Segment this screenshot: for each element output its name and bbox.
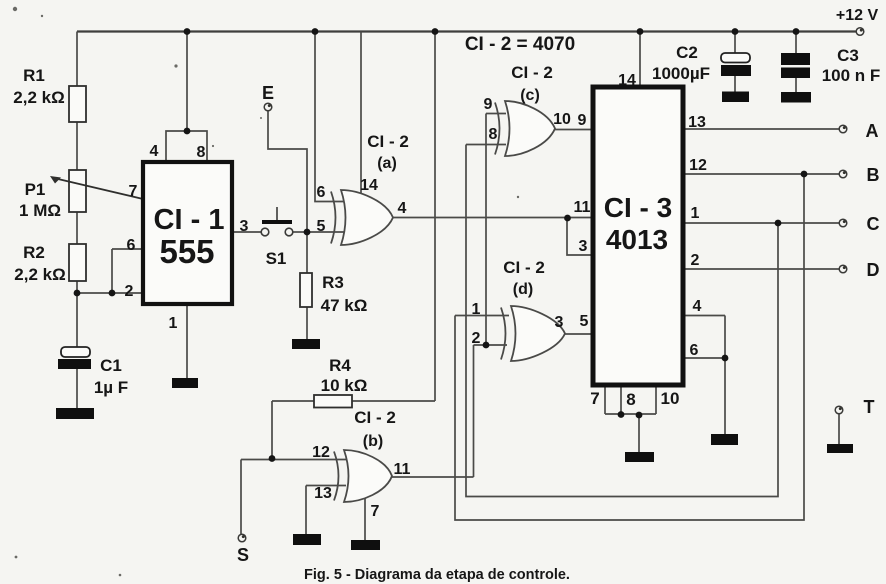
- svg-text:8: 8: [489, 126, 498, 143]
- svg-text:4013: 4013: [606, 224, 668, 255]
- svg-text:12: 12: [689, 157, 707, 174]
- svg-text:(c): (c): [520, 87, 540, 104]
- svg-text:14: 14: [360, 177, 378, 194]
- svg-text:R4: R4: [329, 356, 351, 375]
- svg-text:9: 9: [484, 96, 493, 113]
- svg-text:555: 555: [159, 233, 214, 270]
- svg-text:6: 6: [127, 237, 136, 254]
- svg-text:7: 7: [590, 389, 599, 408]
- svg-text:2: 2: [691, 252, 700, 269]
- svg-text:13: 13: [314, 485, 332, 502]
- svg-text:A: A: [866, 121, 879, 141]
- svg-text:CI - 2: CI - 2: [354, 408, 396, 427]
- svg-text:8: 8: [626, 390, 635, 409]
- svg-text:C1: C1: [100, 356, 122, 375]
- svg-text:CI - 2: CI - 2: [503, 258, 545, 277]
- svg-text:1: 1: [472, 301, 481, 318]
- svg-text:4: 4: [693, 298, 702, 315]
- svg-text:+12 V: +12 V: [836, 7, 879, 24]
- svg-text:C: C: [867, 214, 880, 234]
- svg-text:CI - 2: CI - 2: [367, 132, 409, 151]
- svg-text:5: 5: [580, 313, 589, 330]
- svg-text:1: 1: [691, 205, 700, 222]
- svg-text:100 n F: 100 n F: [822, 66, 881, 85]
- svg-text:7: 7: [371, 503, 380, 520]
- svg-text:C3: C3: [837, 46, 859, 65]
- svg-text:2,2 kΩ: 2,2 kΩ: [13, 88, 64, 107]
- svg-text:13: 13: [688, 114, 706, 131]
- svg-text:R1: R1: [23, 66, 45, 85]
- svg-text:2,2 kΩ: 2,2 kΩ: [14, 265, 65, 284]
- svg-text:11: 11: [574, 199, 591, 216]
- svg-text:Fig. 5 - Diagrama da etapa de: Fig. 5 - Diagrama da etapa de controle.: [304, 567, 570, 583]
- svg-text:11: 11: [394, 461, 411, 478]
- svg-text:3: 3: [555, 314, 564, 331]
- svg-text:14: 14: [618, 72, 636, 89]
- svg-text:D: D: [867, 260, 880, 280]
- svg-text:1 MΩ: 1 MΩ: [19, 201, 61, 220]
- svg-text:5: 5: [317, 218, 326, 235]
- svg-text:4: 4: [150, 143, 159, 160]
- svg-text:B: B: [867, 165, 880, 185]
- svg-text:3: 3: [579, 238, 588, 255]
- svg-text:CI - 1: CI - 1: [154, 204, 225, 236]
- svg-text:6: 6: [690, 342, 699, 359]
- svg-text:P1: P1: [25, 180, 46, 199]
- svg-text:12: 12: [312, 444, 330, 461]
- svg-text:10: 10: [553, 111, 571, 128]
- svg-text:S: S: [237, 545, 249, 565]
- svg-text:8: 8: [197, 144, 206, 161]
- svg-text:1: 1: [169, 315, 178, 332]
- svg-text:(a): (a): [377, 155, 397, 172]
- svg-text:(b): (b): [363, 433, 383, 450]
- svg-text:R3: R3: [322, 273, 344, 292]
- svg-text:CI - 2 = 4070: CI - 2 = 4070: [465, 34, 575, 55]
- svg-text:CI - 3: CI - 3: [604, 192, 672, 223]
- svg-text:2: 2: [472, 330, 481, 347]
- svg-text:9: 9: [578, 112, 587, 129]
- svg-text:2: 2: [125, 283, 134, 300]
- svg-text:C2: C2: [676, 43, 698, 62]
- svg-text:10 kΩ: 10 kΩ: [321, 376, 368, 395]
- svg-text:7: 7: [129, 183, 138, 200]
- svg-text:R2: R2: [23, 243, 45, 262]
- svg-text:6: 6: [317, 184, 326, 201]
- svg-text:1000µF: 1000µF: [652, 64, 710, 83]
- svg-text:CI - 2: CI - 2: [511, 63, 553, 82]
- svg-text:4: 4: [398, 200, 407, 217]
- svg-text:S1: S1: [266, 249, 287, 268]
- svg-text:T: T: [864, 397, 875, 417]
- svg-text:E: E: [262, 83, 274, 103]
- svg-text:1µ F: 1µ F: [94, 378, 128, 397]
- svg-text:3: 3: [240, 218, 249, 235]
- svg-text:10: 10: [661, 389, 680, 408]
- svg-text:47 kΩ: 47 kΩ: [321, 296, 368, 315]
- svg-text:(d): (d): [513, 281, 533, 298]
